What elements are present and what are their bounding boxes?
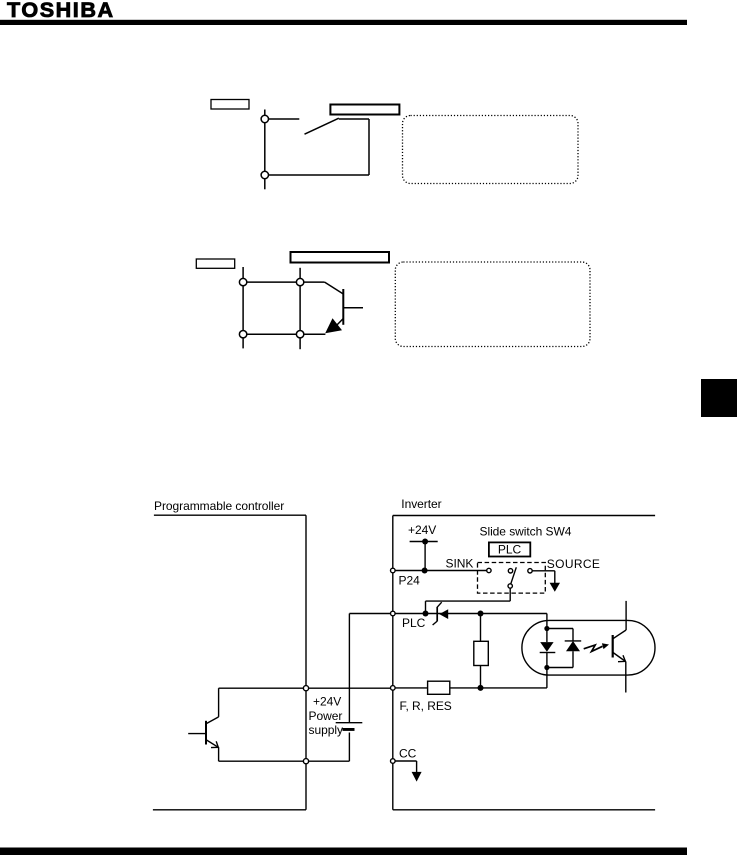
svg-text:SINK: SINK	[446, 557, 474, 571]
svg-text:PLC: PLC	[498, 543, 522, 557]
svg-text:Programmable controller: Programmable controller	[154, 499, 284, 513]
svg-text:supply: supply	[309, 723, 343, 737]
svg-text:+24V: +24V	[313, 695, 341, 709]
svg-text:PLC: PLC	[402, 616, 426, 630]
svg-text:F, R, RES: F, R, RES	[400, 699, 452, 713]
svg-text:P24: P24	[399, 574, 421, 588]
svg-text:Slide switch SW4: Slide switch SW4	[480, 525, 572, 539]
svg-text:CC: CC	[399, 747, 417, 761]
svg-text:+24V: +24V	[408, 523, 436, 537]
svg-text:Inverter: Inverter	[401, 497, 441, 511]
svg-text:TOSHIBA: TOSHIBA	[7, 0, 115, 22]
svg-text:SOURCE: SOURCE	[547, 557, 600, 571]
svg-text:Power: Power	[309, 709, 343, 723]
